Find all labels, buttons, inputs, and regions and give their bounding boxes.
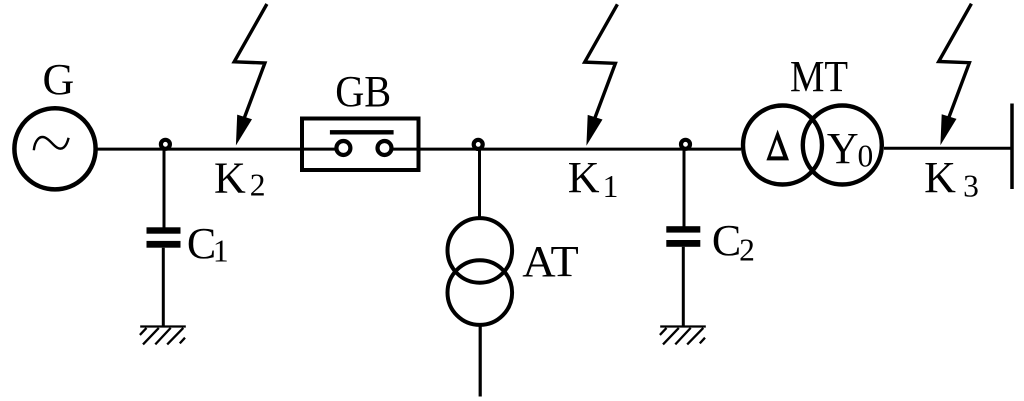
svg-text:1: 1 bbox=[213, 234, 229, 269]
node 3 (C2 tap junction) bbox=[681, 140, 690, 149]
svg-text:K: K bbox=[568, 153, 600, 202]
label C2 bbox=[712, 216, 755, 268]
svg-text:AT: AT bbox=[522, 237, 579, 286]
lightning stroke arrow K1 bbox=[585, 4, 618, 146]
wire: AT branch, node to autotransformer bbox=[478, 148, 481, 217]
wire: C1 capacitor to ground bbox=[162, 248, 165, 327]
node 2 (AT tap junction) bbox=[474, 140, 483, 149]
label delta winding bbox=[766, 130, 789, 161]
svg-text:C: C bbox=[187, 219, 216, 268]
label C1 bbox=[187, 219, 229, 269]
lightning stroke arrow K2 bbox=[234, 4, 267, 146]
wire: C2 capacitor to ground bbox=[682, 247, 685, 327]
label K1 bbox=[568, 153, 619, 204]
autotransformer AT bbox=[448, 218, 513, 325]
wire: AT lower lead bbox=[479, 326, 482, 397]
label K2 bbox=[214, 154, 265, 203]
svg-text:G: G bbox=[43, 55, 75, 104]
svg-text:C: C bbox=[712, 216, 741, 265]
svg-text:2: 2 bbox=[250, 168, 266, 203]
wire: main bus, generator to GB gap bbox=[97, 148, 335, 151]
svg-text:1: 1 bbox=[603, 169, 619, 204]
breaker GB (protective gap) bbox=[302, 119, 419, 171]
svg-text:K: K bbox=[924, 153, 956, 202]
lightning stroke arrow K3 bbox=[939, 4, 972, 146]
transformer MT bbox=[743, 106, 882, 185]
label K3 bbox=[924, 153, 979, 204]
wire: C2 branch, node to capacitor bbox=[683, 148, 686, 228]
svg-text:MT: MT bbox=[790, 52, 848, 101]
wire: C1 branch, node to capacitor bbox=[163, 148, 166, 228]
svg-text:K: K bbox=[214, 154, 246, 203]
svg-text:0: 0 bbox=[858, 138, 874, 173]
generator G bbox=[14, 108, 95, 189]
ground (C1) bbox=[140, 327, 186, 345]
label Y0 winding bbox=[827, 124, 873, 174]
svg-text:2: 2 bbox=[739, 233, 755, 268]
svg-text:GB: GB bbox=[335, 67, 391, 116]
wire: main bus, GB gap to transformer MT bbox=[394, 148, 741, 151]
capacitor C2 bbox=[666, 226, 700, 247]
svg-text:3: 3 bbox=[963, 169, 979, 204]
line terminal bar bbox=[1010, 104, 1014, 190]
node 1 (C1 tap junction) bbox=[161, 140, 170, 149]
capacitor C1 bbox=[147, 227, 181, 247]
ground (C2) bbox=[660, 327, 706, 345]
svg-text:Y: Y bbox=[827, 124, 859, 173]
wire: main bus, transformer MT to line terminal bbox=[884, 147, 1012, 150]
